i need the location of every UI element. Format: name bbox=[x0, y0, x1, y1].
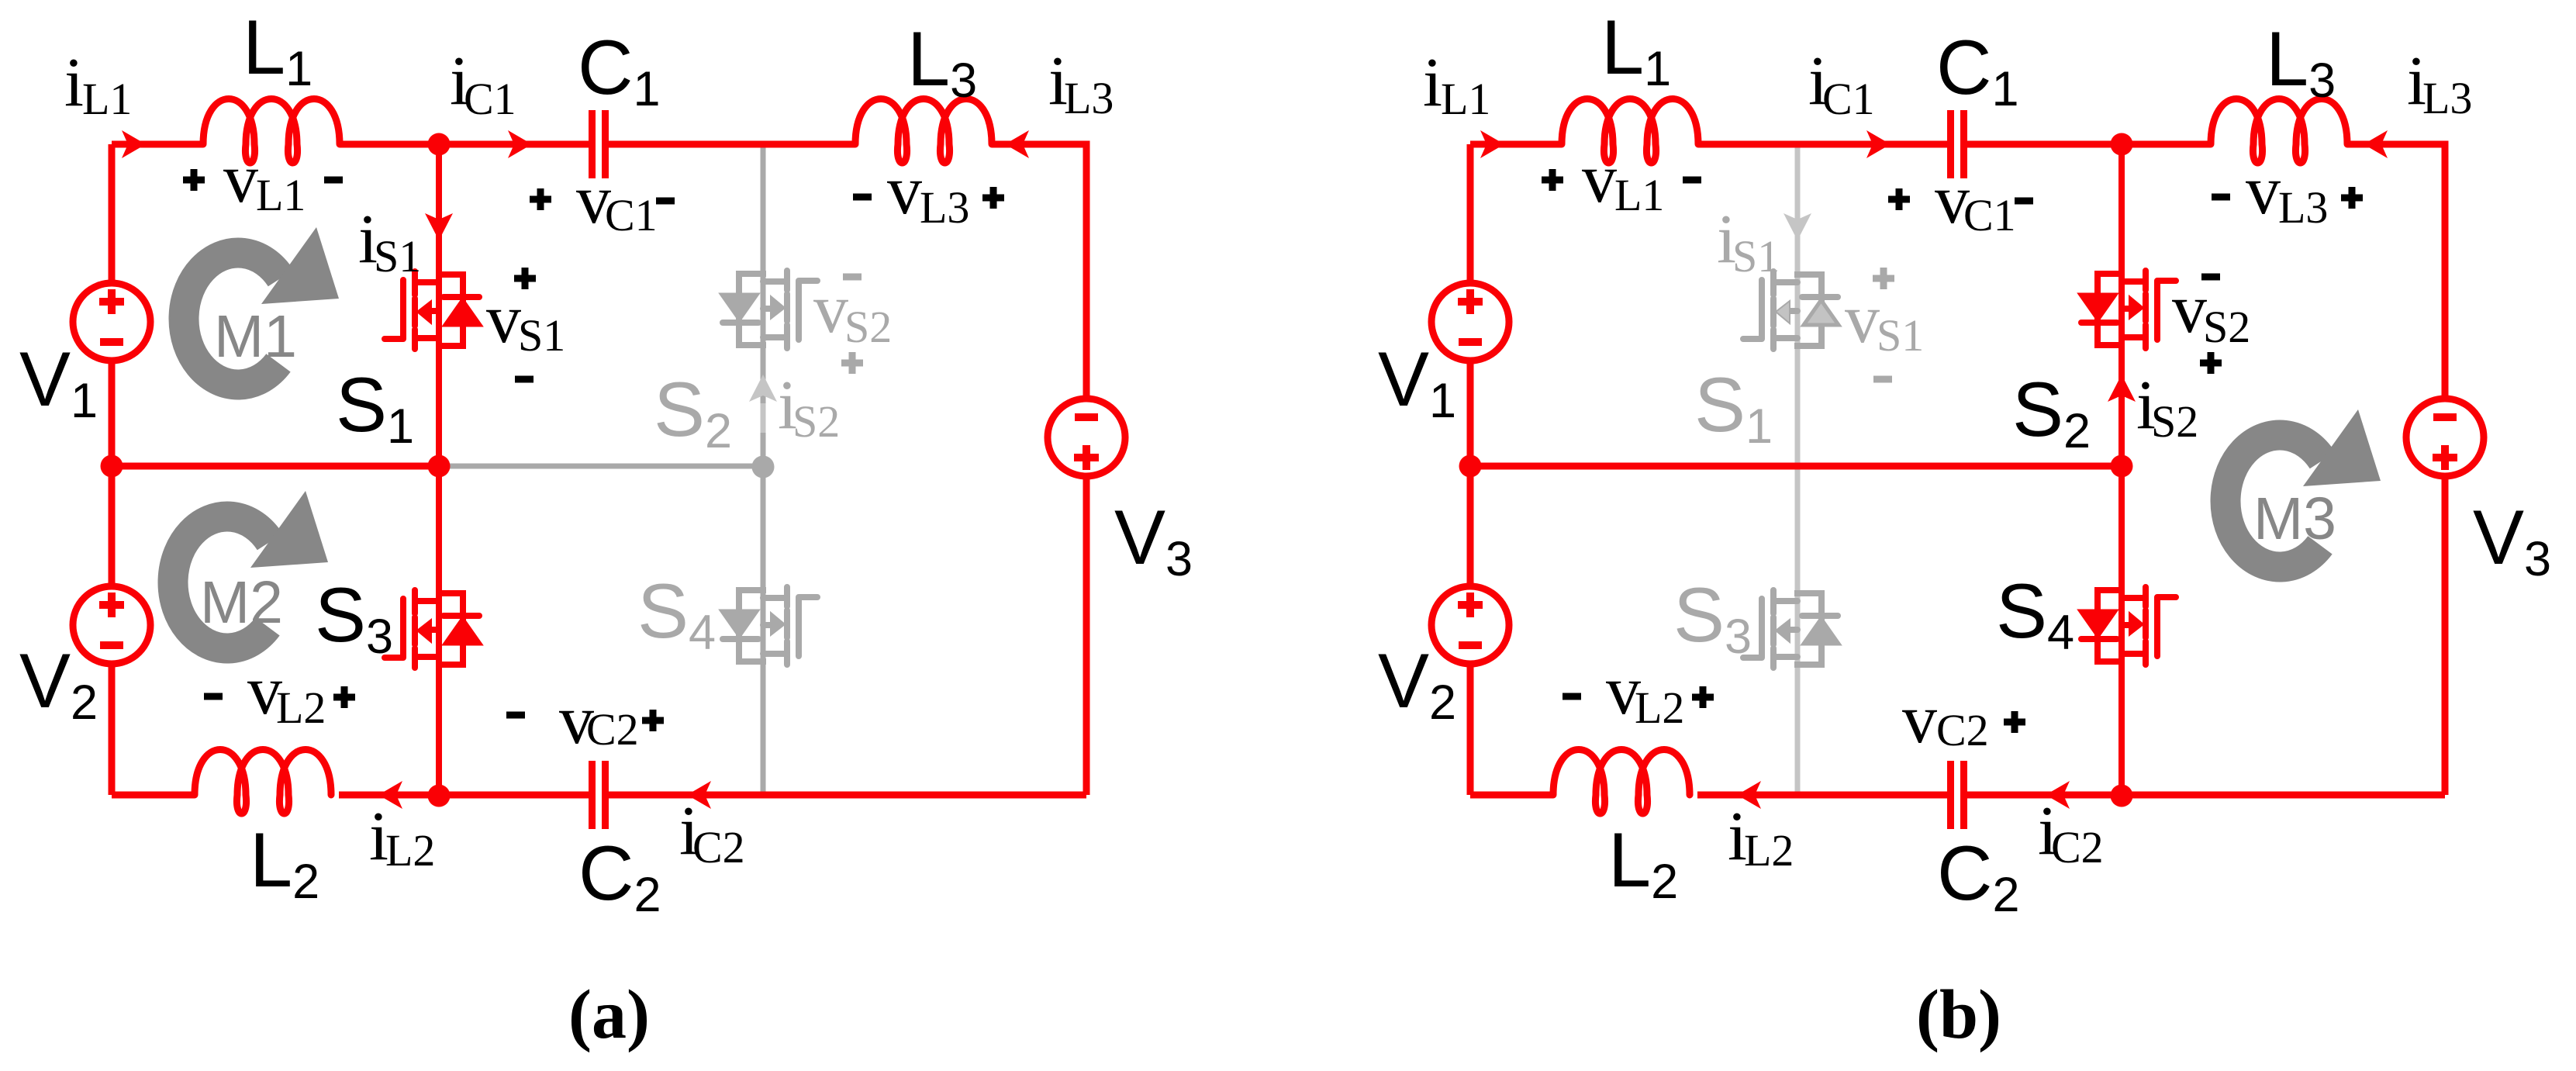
wire S2/S4 branch (active) bbox=[2118, 144, 2125, 796]
svg-text:S1: S1 bbox=[374, 231, 421, 282]
transistor S2 (MOSFET) bbox=[2080, 271, 2176, 348]
iC1 current arrow bbox=[508, 130, 532, 158]
svg-text:M2: M2 bbox=[200, 569, 283, 636]
node mid-left (junction) bbox=[1459, 455, 1482, 478]
iC2 current arrow bbox=[2046, 781, 2070, 809]
svg-text:C1: C1 bbox=[1822, 74, 1875, 124]
node mid/S2 (junction) bbox=[752, 456, 775, 478]
svg-text:L2: L2 bbox=[1635, 682, 1684, 733]
svg-text:v: v bbox=[2246, 152, 2281, 229]
svg-text:S2: S2 bbox=[2151, 396, 2198, 447]
wire top rail middle segment bbox=[340, 141, 592, 148]
iS1 current arrow bbox=[1784, 213, 1811, 240]
polarity - for vL2 bbox=[1563, 693, 1581, 700]
transistor S2 (MOSFET) bbox=[722, 271, 817, 348]
polarity - for vL1 bbox=[1683, 177, 1701, 184]
svg-text:i: i bbox=[64, 44, 84, 121]
transistor S4 (MOSFET) bbox=[2080, 587, 2176, 665]
inductor L2 bbox=[1553, 750, 1690, 814]
wire top rail right segment bbox=[606, 141, 855, 148]
svg-text:L1: L1 bbox=[82, 74, 132, 124]
polarity - for vL3 bbox=[2212, 194, 2230, 201]
svg-text:L1: L1 bbox=[1614, 170, 1664, 220]
svg-text:L2: L2 bbox=[1744, 825, 1794, 876]
circuit (b): mode 2, S2 and S4 conducting bbox=[1378, 4, 2551, 1053]
node mid/S2 (junction) bbox=[2111, 455, 2133, 478]
svg-text:C2: C2 bbox=[692, 822, 745, 872]
wire left rail lower bbox=[1467, 666, 1474, 795]
iL1 current arrow bbox=[1480, 130, 1504, 158]
iS2 current arrow bbox=[2108, 375, 2136, 402]
svg-text:L2: L2 bbox=[385, 825, 435, 876]
svg-text:(b): (b) bbox=[1916, 976, 2001, 1053]
svg-text:v: v bbox=[1902, 681, 1937, 758]
circuit (a): mode 1, S1 and S3 conducting bbox=[19, 4, 1193, 1053]
loop arrow M3 bbox=[2226, 409, 2381, 567]
svg-text:L3: L3 bbox=[2278, 182, 2328, 233]
polarity + for vC1 bbox=[530, 188, 551, 210]
node mid-left (junction) bbox=[101, 455, 123, 478]
svg-text:C2: C2 bbox=[586, 704, 639, 755]
iC2 current arrow bbox=[687, 781, 711, 809]
polarity + for vS2 bbox=[2200, 352, 2222, 374]
wire top-right corner bbox=[2347, 144, 2445, 396]
transistor S1 (MOSFET) bbox=[385, 271, 480, 349]
voltage source V1 bbox=[73, 283, 150, 361]
iL3 current arrow bbox=[2364, 130, 2388, 158]
svg-text:L1: L1 bbox=[256, 170, 306, 220]
svg-text:C1: C1 bbox=[464, 74, 516, 124]
iL1 current arrow bbox=[122, 130, 146, 158]
transistor S3 (MOSFET) bbox=[385, 590, 480, 668]
iL3 current arrow bbox=[1005, 130, 1029, 158]
svg-text:L3: L3 bbox=[920, 182, 969, 233]
wire top rail left segment bbox=[112, 141, 203, 148]
svg-text:i: i bbox=[1423, 44, 1442, 121]
polarity - for vC1 bbox=[2015, 198, 2033, 205]
svg-text:C2: C2 bbox=[2051, 822, 2104, 872]
wire left rail lower bbox=[109, 666, 116, 795]
svg-text:L2: L2 bbox=[276, 682, 326, 733]
inductor L1 bbox=[1562, 99, 1698, 164]
capacitor C2 bbox=[592, 761, 606, 829]
polarity + for vC1 bbox=[1888, 188, 1910, 210]
polarity - for vS2 bbox=[843, 274, 862, 281]
iL2 current arrow bbox=[378, 781, 402, 809]
svg-text:C2: C2 bbox=[1936, 705, 1989, 755]
svg-text:v: v bbox=[2172, 271, 2207, 347]
node mid/S1 (junction) bbox=[428, 455, 451, 478]
polarity + for vL2 bbox=[1692, 686, 1714, 708]
wire top rail left segment bbox=[1470, 141, 1562, 148]
capacitor C1 bbox=[1951, 110, 1964, 178]
wire S2/S4 branch (inactive) bbox=[761, 144, 766, 792]
wire left rail upper bbox=[1467, 144, 1474, 281]
node bottom/S3 (junction) bbox=[428, 785, 451, 807]
polarity + for vL1 bbox=[183, 169, 205, 191]
iL2 current arrow bbox=[1737, 781, 1761, 809]
wire right rail lower bbox=[1083, 478, 1090, 795]
wire top rail middle segment bbox=[1698, 141, 1950, 148]
iC1 current arrow bbox=[1866, 130, 1891, 158]
capacitor C2 bbox=[1951, 761, 1964, 829]
wire bottom rail left segment bbox=[112, 792, 195, 799]
wire mid rail (active) bbox=[112, 463, 439, 470]
svg-text:C1: C1 bbox=[605, 190, 658, 240]
polarity - for vL1 bbox=[324, 177, 343, 184]
wire bottom rail right segment bbox=[606, 792, 1086, 799]
iS1 current arrow bbox=[425, 213, 453, 240]
transistor S4 (MOSFET) bbox=[722, 587, 817, 665]
voltage source V2 bbox=[1431, 586, 1509, 664]
inductor L3 bbox=[855, 99, 992, 164]
polarity + for vS1 bbox=[1873, 268, 1894, 289]
voltage source V3 bbox=[1048, 399, 1125, 476]
svg-text:v: v bbox=[1845, 281, 1880, 358]
node bottom/S4 (junction) bbox=[2111, 785, 2133, 807]
node top/S2 (junction) bbox=[2111, 133, 2133, 156]
polarity - for vS1 bbox=[515, 376, 534, 383]
wire bottom rail middle segment bbox=[339, 792, 592, 799]
capacitor C1 bbox=[592, 110, 606, 178]
svg-text:M1: M1 bbox=[214, 303, 297, 370]
svg-text:S1: S1 bbox=[1732, 231, 1780, 282]
svg-text:S2: S2 bbox=[792, 396, 840, 447]
polarity + for vL2 bbox=[333, 686, 355, 708]
svg-text:S2: S2 bbox=[844, 302, 892, 352]
svg-text:S1: S1 bbox=[518, 310, 565, 361]
svg-text:S1: S1 bbox=[1877, 310, 1924, 361]
polarity - for vS1 bbox=[1873, 376, 1892, 383]
wire mid rail (inactive part) bbox=[439, 464, 763, 469]
transistor S3 (MOSFET) bbox=[1743, 590, 1839, 668]
iS2 arrow stem bbox=[761, 403, 766, 433]
polarity - for vC2 bbox=[506, 712, 525, 719]
svg-text:L1: L1 bbox=[1441, 74, 1490, 124]
wire bottom rail left segment bbox=[1470, 792, 1553, 799]
polarity - for vC1 bbox=[656, 198, 675, 205]
inductor L1 bbox=[203, 99, 340, 164]
polarity - for vL2 bbox=[204, 693, 223, 700]
svg-text:L3: L3 bbox=[1064, 73, 1114, 123]
svg-text:v: v bbox=[1582, 140, 1617, 217]
wire left rail between V1 and mid bbox=[1467, 363, 1474, 584]
wire left rail between V1 and mid bbox=[109, 363, 116, 584]
svg-text:(a): (a) bbox=[568, 976, 650, 1053]
polarity - for vL3 bbox=[853, 194, 872, 201]
wire top rail right segment bbox=[1964, 141, 2211, 148]
wire top-right corner bbox=[992, 144, 1086, 396]
wire right rail lower bbox=[2442, 478, 2449, 795]
polarity + for vL1 bbox=[1542, 169, 1563, 191]
voltage source V3 bbox=[2406, 399, 2484, 476]
svg-text:L3: L3 bbox=[2422, 73, 2472, 123]
iS2 current arrow bbox=[749, 375, 777, 402]
svg-text:S2: S2 bbox=[2203, 302, 2250, 352]
wire bottom rail right segment bbox=[1964, 792, 2445, 799]
loop arrow M2 bbox=[173, 491, 328, 648]
wire left rail upper bbox=[109, 144, 116, 281]
polarity + for vS2 bbox=[841, 352, 863, 374]
polarity - for vS2 bbox=[2201, 274, 2220, 281]
polarity + for vL3 bbox=[982, 187, 1004, 209]
transistor S1 (MOSFET) bbox=[1743, 271, 1839, 349]
wire S1/S3 branch (inactive) bbox=[1795, 144, 1801, 792]
inductor L3 bbox=[2211, 99, 2347, 164]
svg-text:v: v bbox=[486, 281, 521, 358]
polarity + for vC2 bbox=[642, 710, 664, 731]
svg-text:v: v bbox=[813, 271, 848, 347]
polarity + for vC2 bbox=[2004, 711, 2025, 733]
loop arrow M1 bbox=[184, 227, 339, 385]
inductor L2 bbox=[195, 750, 331, 814]
polarity + for vL3 bbox=[2341, 187, 2363, 209]
wire S1/S3 branch (active) bbox=[436, 144, 442, 796]
wire mid rail (active) bbox=[1470, 463, 2122, 470]
svg-text:v: v bbox=[223, 140, 258, 217]
voltage source V2 bbox=[73, 586, 150, 664]
node top/S1 (junction) bbox=[428, 133, 451, 156]
svg-text:v: v bbox=[887, 152, 922, 229]
svg-text:C1: C1 bbox=[1963, 190, 2016, 240]
polarity + for vS1 bbox=[514, 268, 536, 289]
wire bottom rail middle segment bbox=[1697, 792, 1950, 799]
svg-text:M3: M3 bbox=[2253, 485, 2336, 552]
voltage source V1 bbox=[1431, 283, 1509, 361]
